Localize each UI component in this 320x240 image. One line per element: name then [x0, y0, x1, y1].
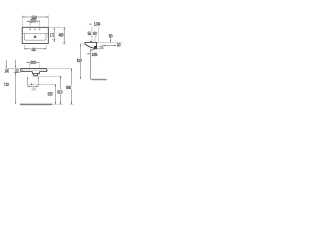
dim 145 leader arrow: [6, 60, 7, 69]
dim 130 extensions: [91, 27, 93, 42]
front dim 200 extension right: [39, 64, 41, 70]
dim 110 leader arrow: [15, 60, 16, 69]
svg-text:173: 173: [50, 33, 55, 38]
dim 610 bottom tick: [58, 103, 62, 105]
side view floor: [91, 78, 107, 80]
front view slab sides: [20, 69, 22, 72]
dim 90 left extension: [102, 45, 104, 49]
dim 530 line: [55, 84, 56, 104]
side view pipe elbow: [91, 49, 95, 51]
front view slab bottom with drain boss: [21, 72, 47, 74]
svg-text:850: 850: [66, 85, 71, 90]
tick at rim ext under 60 arrow: [110, 42, 112, 44]
dim 850 line: [71, 69, 72, 105]
side view floor hatching: [92, 79, 107, 80]
side view bowl underside: [85, 44, 95, 48]
dim 173 line: [54, 28, 55, 43]
fixing bolt dot: [100, 46, 103, 48]
svg-text:200: 200: [30, 19, 36, 24]
wall stub line right: [97, 46, 102, 48]
floor hatching front view: [21, 104, 52, 105]
top view shelf line: [23, 32, 48, 34]
tap hole cross center: [34, 29, 36, 31]
floor line front view: [20, 103, 53, 105]
front view slab top line (with left reference extension): [6, 68, 21, 70]
front view rim line: [21, 69, 46, 71]
stub bottom extension line: [38, 75, 62, 77]
dim 550 extension right: [47, 15, 49, 27]
svg-text:90: 90: [117, 42, 121, 47]
svg-text:185: 185: [92, 52, 98, 57]
dim 90 line + arrows: [103, 45, 116, 46]
svg-text:145: 145: [5, 68, 10, 73]
svg-text:810: 810: [77, 58, 82, 63]
dim 150 extension right w/ arrow: [38, 77, 39, 87]
svg-text:460: 460: [59, 32, 64, 37]
svg-text:200: 200: [30, 60, 36, 65]
front slab left end detail: [21, 69, 23, 72]
front dim 200 extension left: [29, 64, 31, 70]
side view tap bump: [90, 41, 92, 42]
dim 55/60 arrows: [91, 35, 97, 38]
side view drain pipe: [90, 49, 92, 80]
dim 150 line: [28, 86, 39, 87]
dim 200 extension left: [29, 20, 31, 29]
dim 810 top extension: [80, 43, 85, 45]
dim 710 top tick: [13, 72, 21, 74]
dim 200 extension right: [39, 20, 41, 29]
drain pipe stub: [34, 74, 38, 76]
dim 610 line: [60, 76, 61, 104]
dim 550 extension left: [21, 15, 23, 27]
top ext line to right dims: [48, 26, 65, 28]
top view inner bowl: [24, 33, 46, 40]
dim 130 arrows: [90, 24, 100, 25]
dim 530 bottom tick: [53, 103, 57, 105]
dim 185 arrow: [87, 53, 90, 54]
tap hole cross right: [39, 29, 41, 31]
svg-text:55: 55: [88, 31, 92, 36]
dim 810 line: [80, 44, 81, 79]
svg-text:150: 150: [31, 86, 36, 91]
bracket foot line: [96, 48, 104, 50]
dim 460 bottom tick: [62, 43, 66, 45]
svg-text:130: 130: [94, 22, 101, 27]
top view outer rect: [22, 27, 48, 43]
svg-text:60: 60: [109, 34, 113, 39]
outlet cross: [30, 83, 33, 86]
front dim 200 line + arrows: [27, 62, 40, 63]
side view rim top line: [85, 41, 97, 43]
dim 150 extension left w/ arrow: [27, 77, 28, 87]
dim 200 line + arrows: [27, 21, 40, 22]
tap hole cross left: [29, 29, 31, 31]
dim 173 bottom tick: [52, 39, 56, 41]
svg-text:410: 410: [31, 47, 36, 52]
svg-text:530: 530: [48, 92, 53, 97]
svg-text:710: 710: [4, 82, 9, 87]
drain diamond: [33, 35, 36, 38]
side view wall line: [96, 42, 98, 49]
dim 410 extensions: [23, 45, 25, 50]
dim 710 line: [15, 73, 16, 104]
dim 460 line: [64, 28, 65, 44]
dim 60 right arrow: [110, 38, 111, 42]
svg-text:610: 610: [57, 90, 62, 95]
dim 850 bottom tick: [69, 103, 73, 105]
outlet level line: [28, 83, 56, 85]
side view front edge: [84, 42, 86, 44]
side view rim extension right: [97, 42, 122, 44]
dim 550 line: [22, 16, 48, 17]
dim 410 line + arrows: [24, 48, 46, 49]
svg-text:60: 60: [93, 31, 97, 36]
dim 850 top extension: [48, 67, 72, 69]
side view wall bracket: [94, 46, 97, 49]
